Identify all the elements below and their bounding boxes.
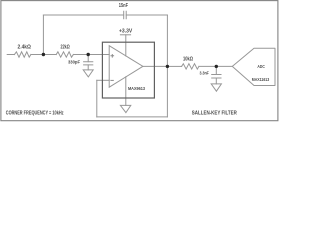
wire R3 to node C — [199, 65, 216, 67]
wire node B to op-amp +input — [88, 54, 109, 56]
ground under C1 — [83, 70, 93, 77]
capacitor C1 330pF plates — [84, 62, 93, 65]
node B junction dot — [87, 53, 90, 56]
svg-text:3.3nF: 3.3nF — [200, 71, 209, 76]
wire box bottom to ground — [125, 98, 127, 105]
wire input stub — [7, 54, 14, 56]
svg-text:330pF: 330pF — [68, 60, 80, 65]
wire left feedback vertical — [96, 80, 98, 117]
svg-text:ADC: ADC — [257, 64, 265, 69]
capacitor C3 3.3nF plates — [212, 75, 221, 79]
resistor R2 22k — [56, 52, 73, 57]
op-amp minus sign — [111, 79, 113, 81]
border frame — [1, 1, 278, 121]
wire R1 to node A — [31, 54, 44, 56]
svg-text:15nF: 15nF — [119, 3, 128, 9]
wire C1 to ground — [87, 65, 89, 70]
ground under C3 — [211, 84, 221, 91]
wire node C to ADC — [216, 65, 232, 67]
op-amp output wire — [143, 65, 168, 67]
wire right feedback vertical — [166, 15, 168, 117]
ADC block pentagon — [232, 48, 275, 85]
wire top feedback right segment — [126, 14, 167, 16]
wire node B down to C1 — [87, 55, 89, 62]
wire C3 to ground — [215, 78, 217, 84]
op-amp U1 triangle — [109, 46, 143, 87]
node C junction dot — [215, 65, 218, 68]
wire node A to R2 — [43, 54, 56, 56]
svg-text:10kΩ: 10kΩ — [183, 57, 193, 63]
supply bar +3.3V — [120, 34, 130, 36]
wire to op-amp -input — [97, 79, 109, 81]
svg-text:MAX11613: MAX11613 — [252, 77, 270, 82]
wire junction to R3 — [167, 65, 181, 67]
wire supply to op-amp — [125, 35, 127, 56]
capacitor C2 15nF plates — [124, 11, 127, 19]
svg-text:+3.3V: +3.3V — [119, 29, 133, 35]
svg-text:22kΩ: 22kΩ — [61, 45, 70, 51]
wire node A up to feedback top — [42, 15, 44, 55]
wire node C down to C3 — [215, 66, 217, 74]
svg-text:CORNER FREQUENCY = 10kHz: CORNER FREQUENCY = 10kHz — [6, 111, 64, 117]
resistor R1 2.4k — [14, 52, 31, 57]
op-amp plus sign — [111, 55, 114, 58]
svg-text:2.4kΩ: 2.4kΩ — [18, 45, 31, 51]
output node junction dot — [166, 65, 169, 68]
wire op-amp Vminus to box bottom — [125, 77, 127, 98]
node A junction dot — [42, 53, 45, 56]
wire top feedback left segment — [43, 14, 123, 16]
ground under op-amp — [120, 105, 130, 112]
op-amp box U1 — [102, 42, 154, 98]
svg-text:SALLEN-KEY FILTER: SALLEN-KEY FILTER — [192, 111, 237, 117]
wire R2 to node B — [73, 54, 88, 56]
resistor R3 10k — [182, 64, 199, 69]
svg-text:MAX9613: MAX9613 — [128, 86, 145, 91]
wire bottom feedback — [97, 116, 168, 118]
